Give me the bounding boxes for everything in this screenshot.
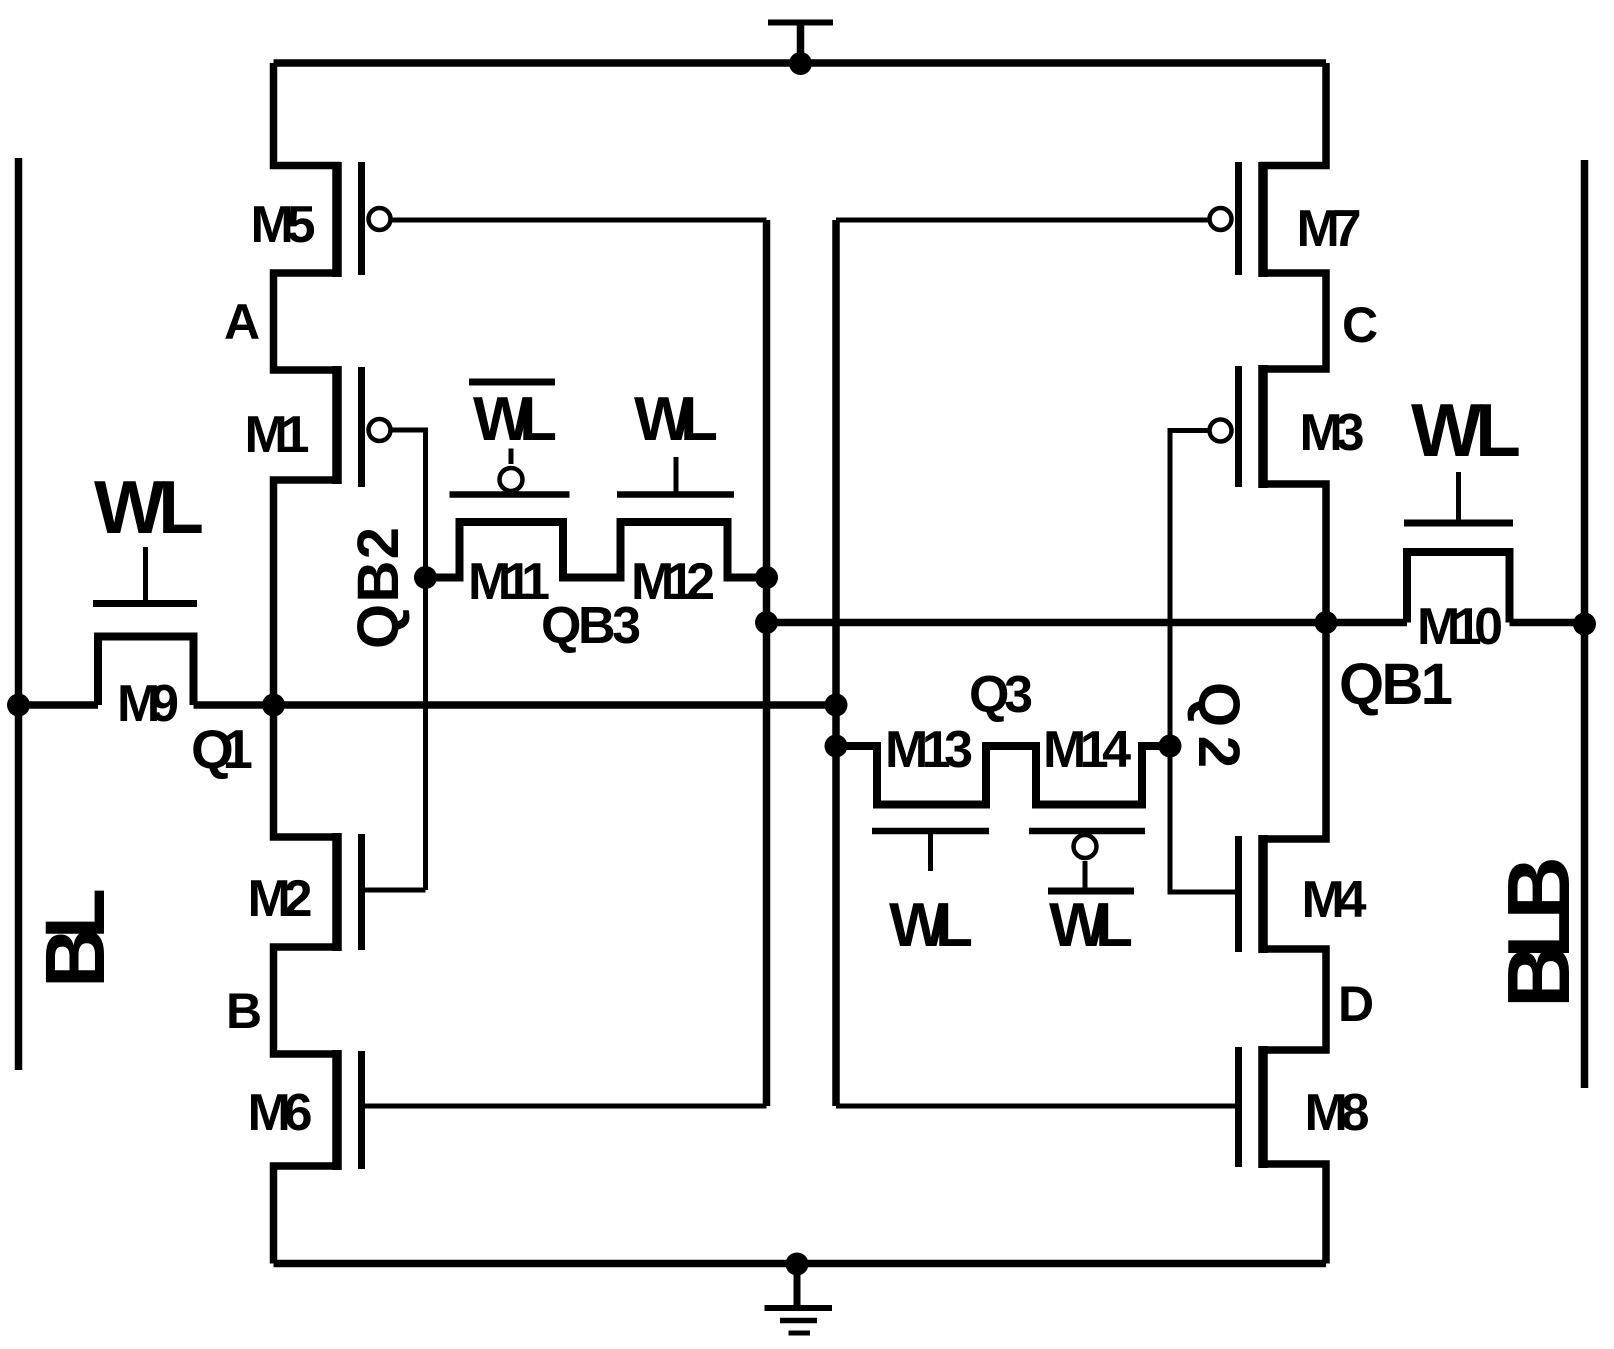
svg-text:QB3: QB3 xyxy=(541,597,641,655)
svg-text:D: D xyxy=(1338,976,1374,1032)
svg-text:M14: M14 xyxy=(1043,721,1131,779)
svg-text:M3: M3 xyxy=(1300,404,1365,462)
svg-text:WL: WL xyxy=(473,385,557,454)
svg-text:QB2: QB2 xyxy=(346,527,411,649)
svg-text:Q3: Q3 xyxy=(969,666,1033,724)
svg-text:M10: M10 xyxy=(1417,598,1503,656)
svg-text:M8: M8 xyxy=(1305,1084,1370,1142)
svg-text:M4: M4 xyxy=(1302,871,1367,929)
svg-text:B: B xyxy=(226,983,262,1039)
svg-text:C: C xyxy=(1342,297,1378,353)
svg-text:WL: WL xyxy=(94,465,204,549)
svg-text:M11: M11 xyxy=(468,553,550,611)
svg-text:M7: M7 xyxy=(1297,200,1362,258)
svg-text:QB1: QB1 xyxy=(1339,652,1453,717)
svg-text:M13: M13 xyxy=(885,721,973,779)
svg-text:Q2: Q2 xyxy=(1186,682,1251,768)
svg-text:BLB: BLB xyxy=(1489,856,1588,1008)
svg-text:M1: M1 xyxy=(245,406,310,464)
svg-text:M9: M9 xyxy=(117,675,179,733)
svg-text:M12: M12 xyxy=(631,553,715,611)
svg-text:WL: WL xyxy=(1411,388,1521,472)
svg-text:A: A xyxy=(224,294,260,350)
svg-text:WL: WL xyxy=(1049,891,1133,960)
svg-text:Q1: Q1 xyxy=(191,718,253,780)
svg-text:WL: WL xyxy=(634,385,718,454)
svg-text:M5: M5 xyxy=(251,196,316,254)
svg-text:BL: BL xyxy=(28,888,122,988)
svg-text:M6: M6 xyxy=(248,1084,313,1142)
svg-text:WL: WL xyxy=(889,891,973,960)
svg-text:M2: M2 xyxy=(248,870,313,928)
